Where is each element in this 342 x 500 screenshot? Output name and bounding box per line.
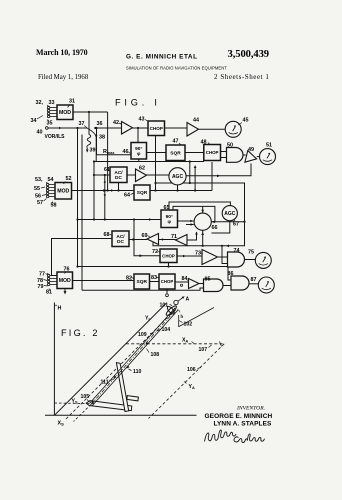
- X_A dashed level line: [126, 343, 224, 345]
- svg-text:37: 37: [79, 121, 85, 127]
- svg-text:51: 51: [266, 143, 272, 149]
- svg-text:69: 69: [142, 233, 148, 239]
- wire: horizontal below AGC 63: [150, 190, 212, 192]
- big aircraft silhouette fuselage: [116, 363, 128, 412]
- angle mark h: [177, 310, 180, 313]
- wire: 90deg65 input: [78, 219, 162, 221]
- wire: 47 to 48: [185, 152, 204, 154]
- junction node: [107, 189, 109, 191]
- wire: CHOP48 bottom vertical: [211, 162, 213, 191]
- wire: resolver bottom stub: [202, 231, 204, 246]
- wire: amp 49 to meter 51: [257, 156, 260, 158]
- svg-text:68: 68: [104, 232, 110, 238]
- svg-text:67: 67: [233, 222, 239, 228]
- svg-text:87: 87: [251, 277, 257, 283]
- arrow 39: [86, 148, 88, 152]
- wire: 65 area to resolver right: [173, 206, 215, 221]
- wire: CHOP72 bottom to low bus: [168, 263, 170, 267]
- construction line from 102 vertical: [179, 308, 214, 327]
- wire: amp 69 to amp 71 row: [159, 239, 176, 241]
- label H: [54, 304, 57, 306]
- wire: CHOP 83 bottom terminal: [166, 290, 168, 294]
- svg-text:43: 43: [139, 117, 145, 123]
- MOD 52: [55, 183, 72, 200]
- svg-text:XS: XS: [58, 421, 65, 427]
- svg-text:71: 71: [171, 234, 177, 240]
- wire: AGC 63 output to right: [186, 164, 251, 176]
- arrow A: [178, 297, 184, 301]
- contact 38: [95, 135, 97, 137]
- svg-text:2 Sheets-Sheet 1: 2 Sheets-Sheet 1: [214, 73, 269, 81]
- svg-text:DC: DC: [115, 175, 122, 181]
- svg-text:55: 55: [34, 186, 40, 192]
- point 108 tick: [146, 342, 149, 345]
- contact 36: [94, 127, 96, 129]
- svg-text:AGC: AGC: [224, 211, 236, 217]
- svg-text:VOR/ILS: VOR/ILS: [45, 134, 66, 140]
- attorney signature: [205, 430, 237, 442]
- svg-text:85: 85: [205, 277, 211, 283]
- wire: AND 86 to meter 87: [249, 283, 258, 285]
- svg-text:φ: φ: [168, 220, 172, 225]
- svg-text:MOD: MOD: [57, 189, 69, 195]
- AC/ 68: [112, 231, 129, 247]
- point 110 arrowhead: [127, 365, 130, 368]
- AND gate 85: [204, 279, 224, 292]
- wire: AC/DC 61 bottom stub: [118, 183, 120, 191]
- svg-text:MOD: MOD: [59, 278, 71, 284]
- svg-text:31: 31: [69, 99, 75, 105]
- svg-text:49: 49: [248, 147, 254, 153]
- svg-text:56: 56: [35, 194, 41, 200]
- vertical drop from aircraft to 102 point: [178, 315, 180, 327]
- svg-text:SQR: SQR: [137, 190, 148, 196]
- wire: vertical drop to switch coil: [88, 112, 90, 135]
- AGC block 63: [169, 168, 186, 185]
- wire: bus y246 to amp 69 underside: [153, 243, 227, 246]
- svg-text:38: 38: [99, 135, 105, 141]
- FIG2 vertical axis H: [53, 303, 55, 416]
- sight corridor line b: [92, 310, 178, 406]
- svg-text:110: 110: [133, 369, 141, 375]
- meter 51: [260, 149, 276, 165]
- svg-text:FIG. 2: FIG. 2: [61, 328, 100, 338]
- resolver 66: [194, 213, 211, 230]
- svg-text:79: 79: [38, 284, 44, 290]
- wire: AND 50 to amp 49: [243, 154, 246, 156]
- wire: 48 to AND 50 inputs: [221, 151, 227, 153]
- svg-text:101: 101: [160, 303, 169, 309]
- phase shifter 90 46: [131, 143, 147, 160]
- svg-text:73: 73: [195, 251, 201, 257]
- wire: amp 62 to AGC 63: [146, 174, 169, 176]
- MOD 52 input terminals 53-58: [49, 184, 55, 186]
- svg-text:DC: DC: [117, 239, 124, 245]
- svg-text:111: 111: [101, 380, 109, 386]
- svg-text:72: 72: [152, 249, 158, 255]
- wire: AND 85 to AND 86: [223, 285, 231, 287]
- CHOP 43: [148, 121, 165, 136]
- svg-text:42: 42: [113, 120, 119, 126]
- aircraft 101 symbol: [165, 300, 178, 316]
- AND gate 50: [227, 148, 244, 163]
- svg-text:65: 65: [164, 205, 170, 211]
- svg-text:62: 62: [139, 166, 145, 172]
- amplifier 62: [136, 169, 147, 182]
- dashed parallel line 109: [66, 313, 172, 419]
- svg-text:84: 84: [182, 276, 188, 282]
- wire: 46 to 47: [147, 152, 167, 154]
- SQR 64: [134, 185, 150, 200]
- wire: AGC 67 bottom to resolver: [212, 221, 230, 233]
- svg-text:58: 58: [51, 203, 57, 209]
- wire: AND 74 to meter 75: [245, 259, 256, 261]
- svg-text:h: h: [181, 314, 184, 319]
- svg-text:CHOP: CHOP: [161, 279, 174, 284]
- AND gate 86: [231, 276, 249, 290]
- wire: amp 69 output to AC/DC 68: [129, 239, 147, 241]
- svg-text:102: 102: [184, 322, 193, 328]
- wire: vertical with up arrow: [194, 166, 196, 191]
- svg-text:MOD: MOD: [59, 110, 71, 116]
- svg-text:AGC: AGC: [172, 174, 184, 180]
- wire: MOD 52 output bus: [72, 190, 135, 192]
- sight corridor line a: [90, 308, 176, 404]
- wire: Rmax input to 90 deg box 46: [96, 128, 98, 155]
- amplifier 44: [187, 123, 199, 137]
- svg-text:54: 54: [48, 177, 54, 183]
- switch arm 37: [88, 129, 96, 136]
- wire: amp 42 to CHOP 43: [133, 127, 149, 129]
- svg-text:Filed May 1, 1968: Filed May 1, 1968: [38, 74, 89, 81]
- svg-text:March 10, 1970: March 10, 1970: [36, 48, 88, 57]
- junction node: [137, 127, 139, 129]
- wire: vertical 105 with direction arrows: [104, 175, 106, 220]
- svg-text:H: H: [58, 306, 62, 312]
- svg-text:40: 40: [37, 130, 43, 136]
- sight corridor dash-dot centerline: [91, 309, 177, 405]
- svg-text:57: 57: [37, 200, 43, 206]
- wire: 65 out to resolver left: [178, 220, 194, 222]
- svg-text:CHOP: CHOP: [150, 126, 163, 131]
- wire: right bus rectangle: [156, 183, 245, 246]
- meter 75: [255, 252, 271, 268]
- wire: amp 44 to meter 45: [199, 128, 226, 130]
- svg-text:109: 109: [138, 332, 147, 338]
- svg-text:81: 81: [46, 290, 52, 296]
- svg-text:82: 82: [126, 276, 132, 282]
- terminal under amp 84 input: [180, 284, 182, 286]
- svg-text:INVENTOR.: INVENTOR.: [236, 406, 265, 412]
- svg-text:46: 46: [123, 149, 129, 155]
- svg-text:66: 66: [212, 225, 218, 231]
- MOD 76: [57, 272, 73, 289]
- MOD 31: [57, 105, 73, 120]
- wire: AND 74 lower input: [222, 246, 228, 264]
- CHOP 83: [159, 274, 175, 289]
- svg-text:77: 77: [39, 272, 45, 278]
- svg-text:53,: 53,: [35, 177, 43, 183]
- svg-text:A: A: [186, 297, 190, 303]
- wire: CHOP 72 input from node on 219 wire: [134, 220, 160, 256]
- svg-text:SQR: SQR: [170, 151, 181, 157]
- svg-text:61: 61: [104, 167, 110, 173]
- MOD 76 input terminals 77-81: [50, 275, 57, 277]
- wire: second long vertical bus: [81, 135, 83, 291]
- wire: resolver right to bus: [211, 221, 244, 223]
- terminal 40: [46, 127, 49, 130]
- CHOP 48: [204, 145, 221, 161]
- dashed extension below axis: [74, 405, 91, 422]
- amplifier 42: [122, 122, 133, 135]
- wire: amp 84 to AND 85: [199, 283, 204, 285]
- svg-text:34: 34: [31, 118, 37, 124]
- wire: CHOP 83 to amp 84: [175, 281, 189, 283]
- wire: amp71 to resolver bottom: [187, 232, 197, 240]
- wire: CHOP 72 to amp 73: [177, 255, 202, 257]
- svg-text:86: 86: [228, 271, 234, 277]
- Y_S dashed level line: [54, 402, 89, 405]
- svg-text:47: 47: [173, 139, 179, 145]
- SQR 82: [134, 274, 150, 289]
- svg-text:32,: 32,: [36, 100, 44, 106]
- solid diagonal Y_I: [54, 304, 166, 416]
- amplifier 69: [147, 234, 159, 245]
- wire: MOD 31 output: [73, 111, 108, 113]
- point 105 arrowhead: [91, 401, 95, 405]
- svg-text:74: 74: [234, 248, 240, 254]
- svg-text:SIMULATION OF RADIO NAVIGATION: SIMULATION OF RADIO NAVIGATION EQUIPMENT: [126, 66, 227, 71]
- big aircraft silhouette wing bar: [86, 401, 132, 411]
- big aircraft tailplane stub: [127, 396, 138, 401]
- svg-text:107: 107: [199, 347, 208, 353]
- amplifier 73: [202, 250, 218, 265]
- tick on X_A line: [220, 342, 222, 347]
- phase shifter 90 65: [161, 210, 178, 228]
- svg-text:52: 52: [66, 176, 72, 182]
- svg-text:76: 76: [64, 267, 70, 273]
- wire: AGC63 bottom stub: [177, 185, 179, 191]
- wire: contact 38 down to bus: [95, 136, 97, 162]
- AGC block 67: [222, 206, 237, 221]
- wire: MOD31 drop right vertical: [107, 112, 109, 191]
- svg-text:φ: φ: [137, 152, 141, 157]
- meter 87: [258, 277, 274, 293]
- point 111 arrowhead: [114, 375, 117, 378]
- wire: long vertical left bus from VOR line: [77, 128, 79, 267]
- svg-text:64: 64: [124, 193, 130, 199]
- wire: AC/DC 61 to amp 62: [127, 174, 136, 176]
- wire: resolver lower-left input: [186, 224, 194, 226]
- svg-text:104: 104: [162, 327, 171, 333]
- wire: resolver top input: [202, 206, 204, 212]
- amplifier 71: [176, 235, 188, 246]
- wire: CHOP43 bottom vertical: [155, 136, 157, 191]
- wire: bottom bus into AND 85: [82, 288, 204, 290]
- wire: down to 90 deg box 46: [137, 128, 139, 144]
- AND gate 74: [228, 252, 245, 267]
- svg-text:CHOP: CHOP: [206, 150, 219, 155]
- svg-text:106: 106: [187, 367, 196, 373]
- svg-text:3,500,439: 3,500,439: [228, 49, 269, 60]
- amplifier 49: [245, 151, 258, 165]
- svg-text:50: 50: [227, 143, 233, 149]
- CHOP 72: [160, 249, 177, 263]
- svg-text:45: 45: [243, 118, 249, 124]
- svg-text:105: 105: [81, 394, 90, 400]
- svg-text:CHOP: CHOP: [162, 253, 175, 258]
- wire: CHOP 43 to amp 44: [165, 127, 188, 129]
- svg-text:108: 108: [151, 352, 160, 358]
- MOD 31 input terminals 32-35: [50, 107, 57, 109]
- svg-text:FIG. I: FIG. I: [115, 98, 161, 108]
- wire: SQR 82 to CHOP 83: [150, 281, 160, 283]
- meter 45: [225, 121, 241, 137]
- svg-text:SQR: SQR: [137, 279, 148, 285]
- MOD 76 ground arrow: [64, 289, 66, 294]
- wire: 65 top to AGC67: [169, 202, 230, 210]
- amplifier 84: [189, 279, 200, 289]
- svg-text:83: 83: [151, 275, 157, 281]
- svg-text:75: 75: [248, 250, 254, 256]
- wire: MOD 76 output: [73, 280, 135, 282]
- wire: long mid bus: [94, 161, 204, 163]
- svg-text:G. E. MINNICH ETAL: G. E. MINNICH ETAL: [126, 54, 198, 61]
- wire: low bus y266: [78, 267, 232, 281]
- svg-text:36: 36: [97, 121, 103, 127]
- FIG2 horizontal axis: [45, 414, 197, 416]
- AC/ 61: [110, 167, 127, 183]
- wire: connector bus161 to bus183: [189, 162, 191, 184]
- wire: AC/DC 68 to MOD 76: [52, 239, 113, 276]
- wire: box 46 bottom stub: [138, 159, 140, 162]
- svg-text:GEORGE E. MINNICH: GEORGE E. MINNICH: [205, 413, 273, 420]
- svg-text:LYNN A. STAPLES: LYNN A. STAPLES: [214, 421, 273, 428]
- svg-text:33: 33: [49, 100, 55, 106]
- svg-text:48: 48: [201, 140, 207, 146]
- wire: contact 36 to amp 42: [95, 127, 121, 129]
- wire: amp 73 to AND 74: [218, 256, 228, 258]
- wire: AC/DC 61 input: [93, 162, 95, 220]
- wire: VOR/ILS input line: [48, 127, 87, 129]
- svg-text:35: 35: [47, 121, 53, 127]
- SQR 47: [166, 145, 185, 161]
- svg-text:39: 39: [90, 148, 96, 154]
- switch coil 39: [87, 135, 91, 148]
- Y_A dashed diagonal: [149, 344, 225, 419]
- svg-text:44: 44: [193, 118, 199, 124]
